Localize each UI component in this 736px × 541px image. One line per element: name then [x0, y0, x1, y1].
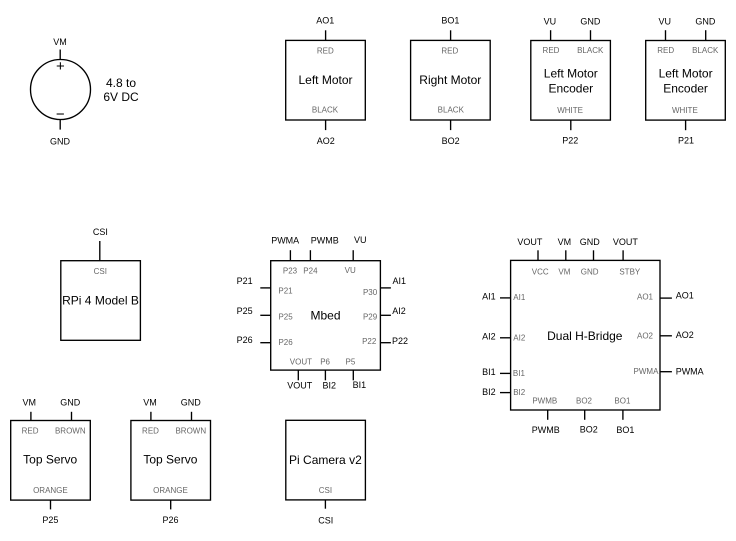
wire GND to H-bridge — [593, 250, 595, 260]
wire BI1 to H-bridge — [500, 372, 511, 374]
wire P21 from encoder E2 — [685, 120, 687, 130]
svg-text:BI2: BI2 — [513, 388, 526, 397]
svg-text:BLACK: BLACK — [577, 46, 604, 55]
svg-text:PWMB: PWMB — [532, 425, 560, 435]
svg-text:GND: GND — [581, 268, 599, 277]
wire AI1 from Mbed P30 — [380, 287, 391, 289]
wire VM to H-bridge — [565, 250, 567, 260]
svg-text:Mbed: Mbed — [310, 309, 340, 323]
svg-text:AO1: AO1 — [637, 293, 654, 302]
motor M2 (Right Motor) body — [411, 40, 491, 120]
wire P21 to Mbed — [260, 287, 270, 289]
wire VM to servo SV1 — [30, 412, 32, 421]
camera U4 (Pi Camera v2) body — [286, 420, 366, 500]
svg-text:ORANGE: ORANGE — [153, 486, 188, 495]
wire AO2 from Left Motor — [325, 120, 327, 130]
wire BI1 from Mbed P5 — [352, 370, 354, 380]
svg-text:GND: GND — [580, 16, 601, 26]
svg-text:4.8 to: 4.8 to — [106, 76, 136, 90]
svg-text:PWMB: PWMB — [532, 397, 557, 406]
svg-text:Pi Camera v2: Pi Camera v2 — [289, 453, 362, 467]
wire VOUT from Mbed — [297, 370, 299, 380]
wire P25 to servo SV1 — [50, 500, 52, 509]
svg-text:VU: VU — [354, 235, 367, 245]
svg-text:Encoder: Encoder — [663, 81, 708, 95]
svg-text:BLACK: BLACK — [312, 106, 339, 115]
svg-text:P25: P25 — [237, 306, 253, 316]
svg-text:BO2: BO2 — [442, 136, 460, 146]
svg-text:P30: P30 — [363, 288, 378, 297]
svg-text:VOUT: VOUT — [290, 358, 312, 367]
svg-text:VU: VU — [544, 16, 557, 26]
svg-text:BO1: BO1 — [616, 425, 634, 435]
svg-text:BROWN: BROWN — [175, 427, 206, 436]
svg-text:VM: VM — [558, 237, 572, 247]
svg-text:VOUT: VOUT — [613, 237, 639, 247]
svg-text:AO2: AO2 — [317, 136, 335, 146]
svg-text:P21: P21 — [278, 287, 293, 296]
wire CSI from Pi Camera — [324, 500, 326, 509]
wire AO1 from H-bridge — [660, 297, 672, 299]
svg-text:WHITE: WHITE — [672, 106, 698, 115]
svg-text:Left Motor: Left Motor — [659, 66, 713, 80]
svg-text:ORANGE: ORANGE — [33, 486, 68, 495]
svg-text:CSI: CSI — [93, 227, 108, 237]
svg-text:GND: GND — [181, 397, 202, 407]
svg-text:PWMB: PWMB — [311, 236, 339, 246]
svg-text:RPi 4 Model B: RPi 4 Model B — [62, 294, 139, 308]
svg-text:RED: RED — [142, 427, 159, 436]
svg-text:BLACK: BLACK — [692, 46, 719, 55]
wire BI2 from Mbed P6 — [324, 370, 326, 380]
wire VOUT to H-bridge STBY — [622, 250, 624, 260]
wire PWMA to Mbed P23 — [289, 250, 291, 261]
svg-text:VM: VM — [558, 268, 570, 277]
svg-text:AO1: AO1 — [316, 15, 334, 25]
svg-text:WHITE: WHITE — [557, 106, 583, 115]
svg-text:BI1: BI1 — [513, 369, 526, 378]
wire P22 from encoder E1 — [570, 120, 572, 130]
svg-text:VM: VM — [23, 397, 37, 407]
svg-text:P26: P26 — [162, 515, 178, 525]
wire AI2 from Mbed P29 — [380, 314, 391, 316]
svg-text:P22: P22 — [562, 136, 578, 146]
wire PWMB to H-bridge — [547, 410, 549, 420]
svg-text:BLACK: BLACK — [438, 106, 465, 115]
svg-text:RED: RED — [22, 427, 39, 436]
wire GND to servo SV2 — [191, 412, 193, 421]
driver U3 (Dual H-Bridge) body — [511, 260, 660, 410]
svg-text:VCC: VCC — [532, 268, 549, 277]
svg-text:CSI: CSI — [319, 486, 332, 495]
wire AO2 from H-bridge — [660, 335, 672, 337]
svg-text:AI2: AI2 — [513, 333, 526, 342]
svg-text:P25: P25 — [278, 313, 293, 322]
svg-text:RED: RED — [441, 46, 458, 55]
svg-text:P24: P24 — [303, 267, 318, 276]
svg-text:+: + — [56, 58, 65, 75]
svg-text:BO1: BO1 — [614, 397, 631, 406]
wire GND to encoder E1 — [590, 30, 592, 40]
svg-text:P29: P29 — [363, 313, 378, 322]
wire PWMA to H-bridge — [660, 371, 672, 373]
svg-text:CSI: CSI — [318, 515, 333, 525]
svg-text:BO2: BO2 — [576, 397, 593, 406]
servo SV1 (Top Servo) body — [11, 421, 91, 501]
svg-text:P23: P23 — [283, 267, 298, 276]
svg-text:VM: VM — [53, 37, 67, 47]
wire P25 to Mbed — [260, 314, 270, 316]
wire GND to servo SV1 — [71, 412, 73, 421]
svg-text:P21: P21 — [237, 276, 253, 286]
wire VOUT to H-bridge VCC — [537, 250, 539, 260]
wire VU to encoder E2 — [665, 30, 667, 40]
svg-text:GND: GND — [695, 16, 716, 26]
wire VM to servo SV2 — [150, 412, 152, 421]
svg-text:AO2: AO2 — [637, 332, 654, 341]
svg-text:STBY: STBY — [619, 268, 641, 277]
svg-text:VU: VU — [345, 266, 356, 275]
svg-text:Encoder: Encoder — [548, 81, 593, 95]
wire PWMB to Mbed P24 — [309, 250, 311, 261]
svg-text:BI1: BI1 — [482, 367, 496, 377]
wire BO2 from Right Motor — [450, 120, 452, 130]
svg-text:VOUT: VOUT — [287, 380, 313, 390]
motor M1 (Left Motor) body — [286, 40, 366, 120]
svg-text:RED: RED — [543, 46, 560, 55]
wire AO1 to Left Motor — [325, 30, 327, 40]
svg-text:AI1: AI1 — [513, 293, 526, 302]
svg-text:AO1: AO1 — [676, 291, 694, 301]
svg-text:BI2: BI2 — [323, 380, 337, 390]
svg-text:BROWN: BROWN — [55, 427, 86, 436]
svg-text:BO2: BO2 — [580, 425, 598, 435]
battery B1 (4.8-6V DC supply) — [31, 60, 91, 120]
svg-text:Top Servo: Top Servo — [143, 452, 197, 466]
svg-text:6V DC: 6V DC — [103, 90, 139, 104]
svg-text:P22: P22 — [392, 336, 408, 346]
encoder E2 (Left Motor Encoder) body — [646, 41, 726, 121]
svg-text:Right Motor: Right Motor — [419, 73, 481, 87]
svg-text:GND: GND — [60, 397, 81, 407]
svg-text:PWMA: PWMA — [634, 367, 660, 376]
svg-text:BO1: BO1 — [441, 15, 459, 25]
svg-text:AI1: AI1 — [482, 291, 496, 301]
board U1 (RPi 4 Model B) body — [61, 261, 141, 341]
svg-text:BI1: BI1 — [353, 380, 367, 390]
svg-text:P22: P22 — [362, 337, 377, 346]
svg-text:BI2: BI2 — [482, 387, 496, 397]
svg-text:RED: RED — [657, 46, 674, 55]
wire BO1 to Right Motor — [450, 30, 452, 40]
svg-text:GND: GND — [50, 136, 71, 146]
wire VU to Mbed — [352, 250, 354, 261]
svg-text:AI2: AI2 — [482, 331, 496, 341]
svg-text:VU: VU — [659, 16, 672, 26]
svg-text:Left Motor: Left Motor — [298, 73, 352, 87]
svg-text:VM: VM — [143, 397, 157, 407]
microcontroller U2 (Mbed) body — [271, 261, 381, 370]
svg-text:PWMA: PWMA — [271, 236, 299, 246]
wire P26 to Mbed — [260, 342, 270, 344]
svg-text:Left Motor: Left Motor — [544, 66, 598, 80]
wire GND from battery negative — [59, 119, 61, 129]
wire AI2 to H-bridge — [500, 337, 511, 339]
wire VM from battery positive — [59, 50, 61, 60]
svg-text:PWMA: PWMA — [676, 367, 704, 377]
wire P26 to servo SV2 — [170, 500, 172, 509]
wire BO2 from H-bridge — [584, 410, 586, 420]
svg-text:AI1: AI1 — [393, 276, 407, 286]
svg-text:P26: P26 — [278, 338, 293, 347]
svg-text:AO2: AO2 — [676, 330, 694, 340]
svg-text:VOUT: VOUT — [517, 237, 543, 247]
servo SV2 (Top Servo) body — [131, 421, 211, 501]
encoder E1 (Left Motor Encoder) body — [531, 41, 611, 121]
svg-text:GND: GND — [580, 237, 601, 247]
svg-text:RED: RED — [317, 46, 334, 55]
wire CSI to RPi 4 — [99, 241, 101, 261]
svg-text:P25: P25 — [42, 515, 58, 525]
svg-text:AI2: AI2 — [392, 306, 406, 316]
wire P22 from Mbed — [380, 342, 391, 344]
wire BO1 from H-bridge — [622, 410, 624, 420]
svg-text:Top Servo: Top Servo — [23, 452, 77, 466]
wire VU to encoder E1 — [550, 30, 552, 40]
svg-text:P26: P26 — [237, 335, 253, 345]
svg-text:P5: P5 — [346, 358, 356, 367]
svg-text:Dual H-Bridge: Dual H-Bridge — [547, 329, 623, 343]
svg-text:CSI: CSI — [94, 267, 107, 276]
wire GND to encoder E2 — [705, 30, 707, 40]
svg-text:P6: P6 — [320, 358, 330, 367]
wire AI1 to H-bridge — [500, 297, 511, 299]
svg-text:P21: P21 — [678, 136, 694, 146]
wire BI2 to H-bridge — [500, 392, 511, 394]
